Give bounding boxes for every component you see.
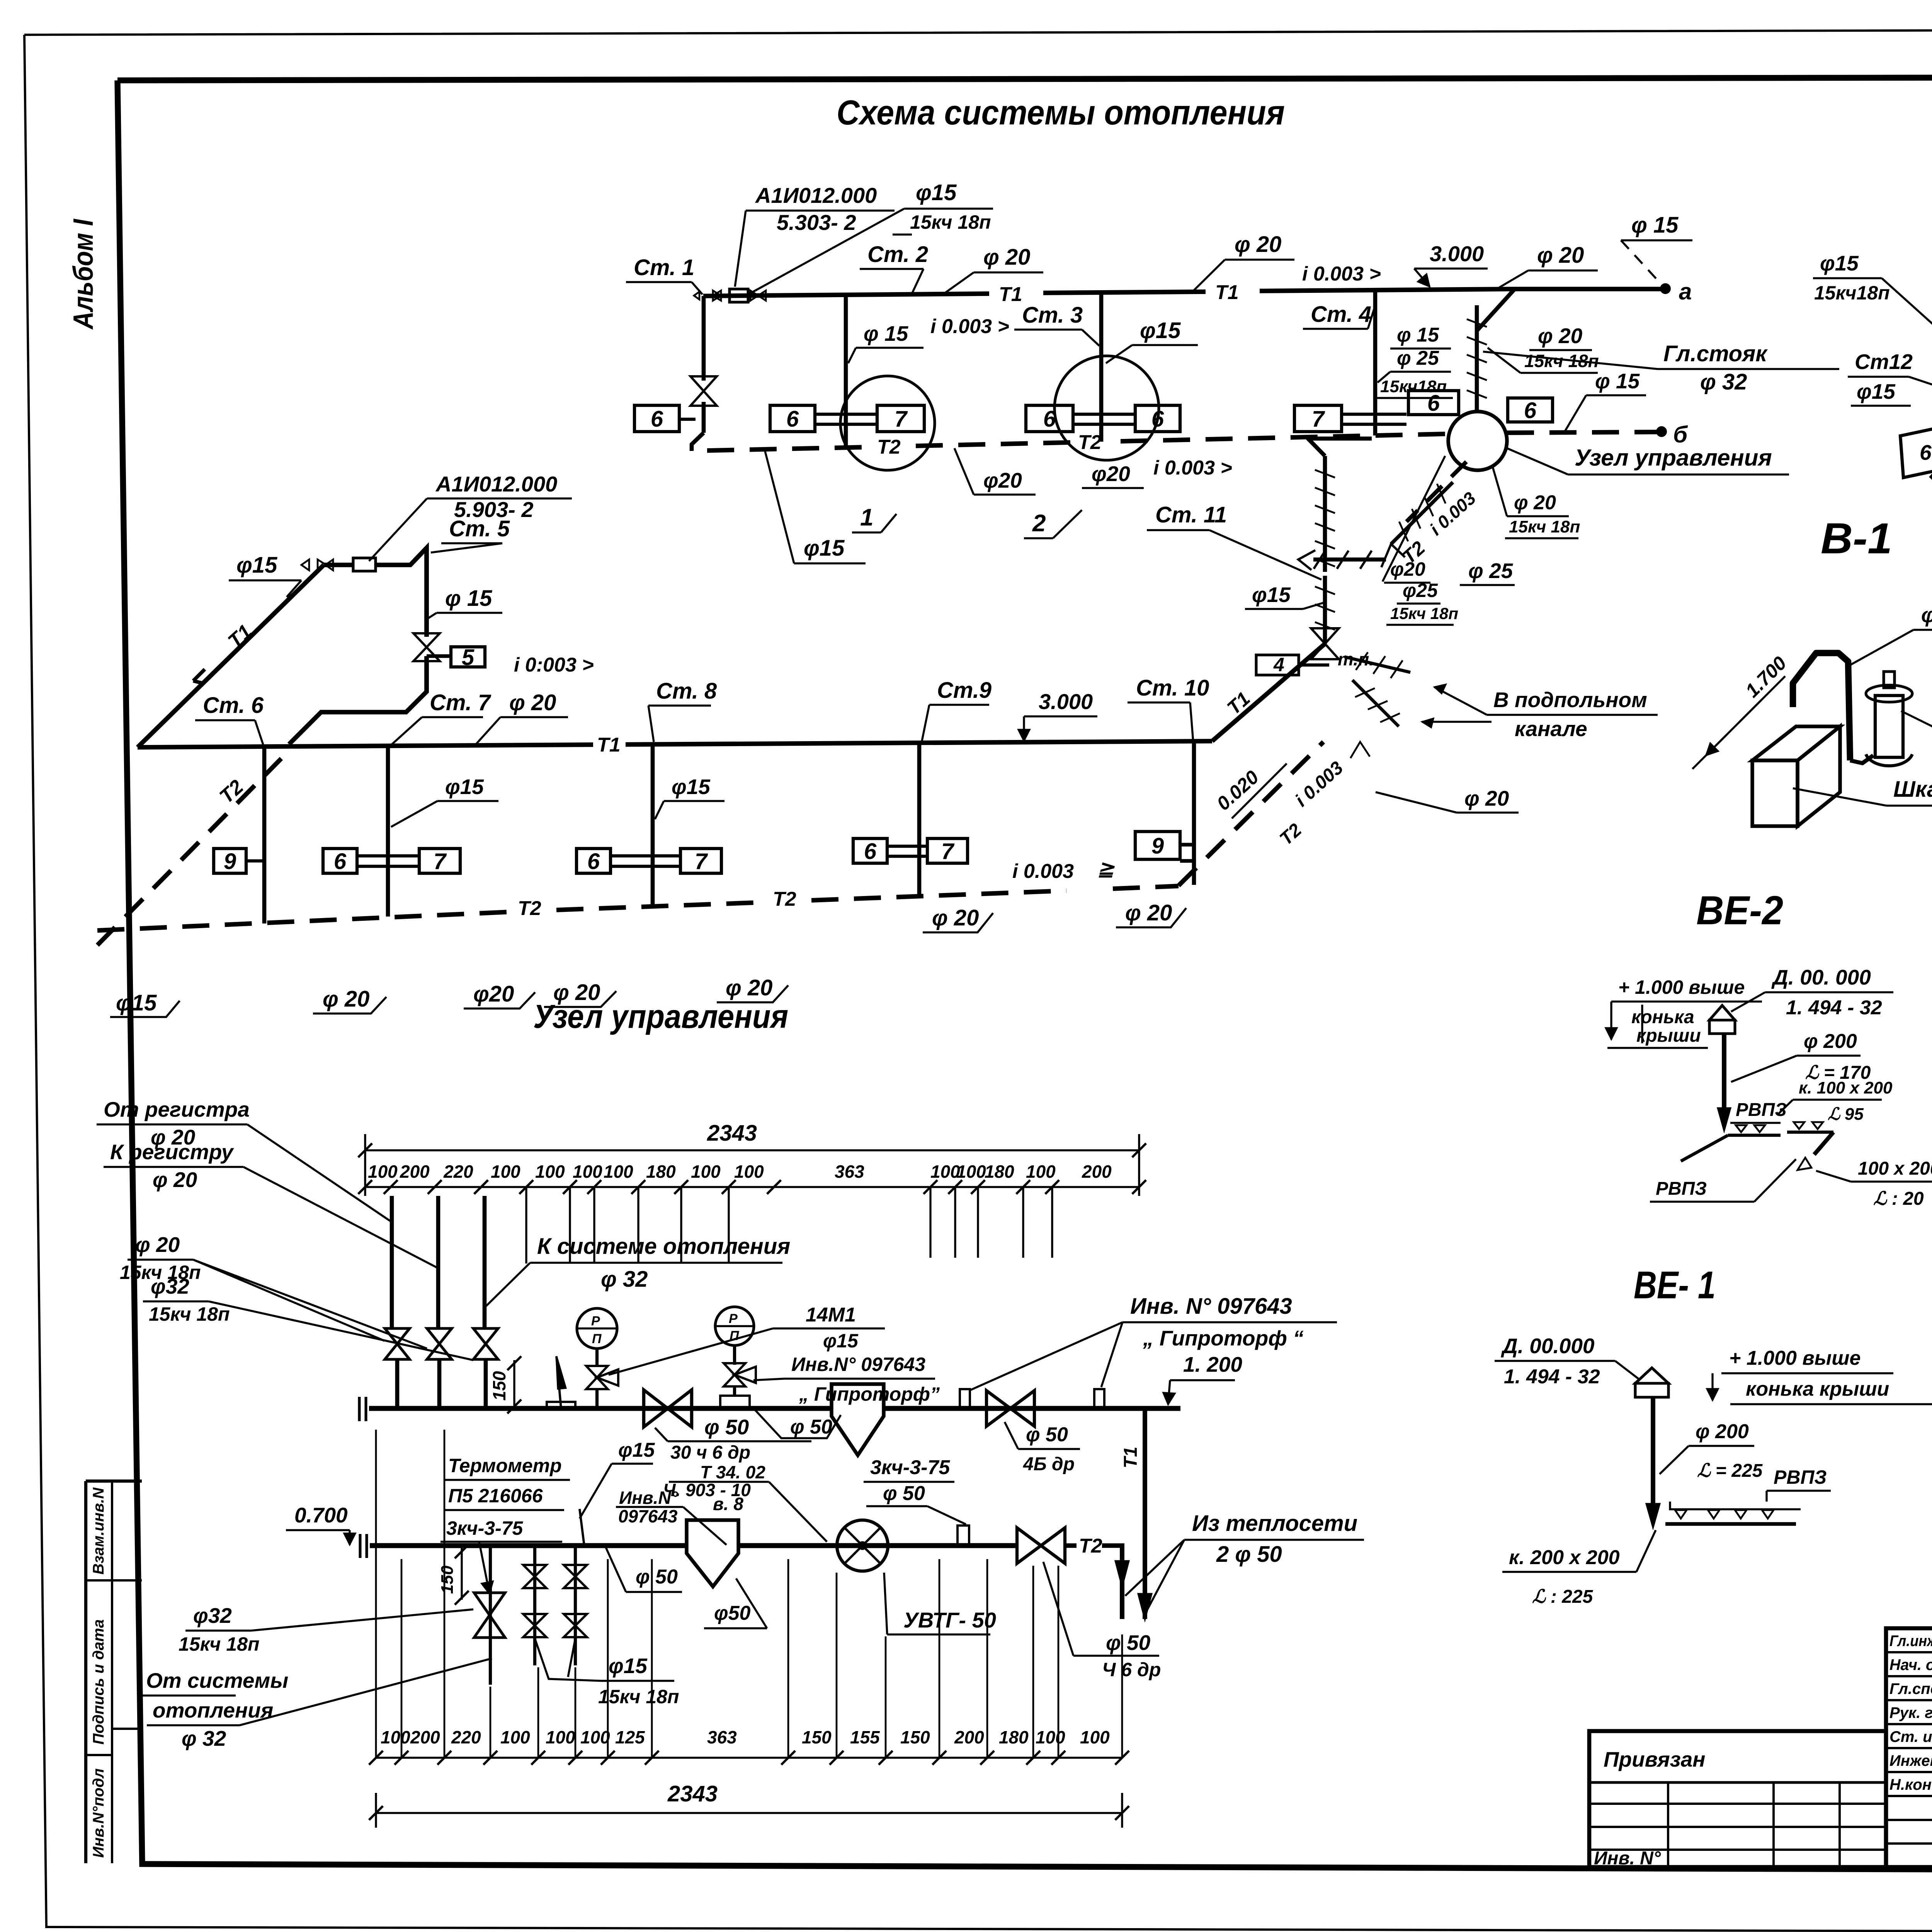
- svg-text:Т1: Т1: [1121, 1447, 1141, 1468]
- svg-text:Т1: Т1: [1215, 281, 1239, 304]
- VE1 grille: [1665, 1522, 1796, 1526]
- svg-text:φ 50: φ 50: [1026, 1423, 1068, 1446]
- svg-text:Инжен.: Инжен.: [1889, 1752, 1932, 1769]
- svg-text:≧: ≧: [1097, 858, 1115, 880]
- svg-text:канале: канале: [1515, 717, 1587, 741]
- radiator 5: [451, 647, 485, 667]
- svg-text:φ 20: φ 20: [323, 986, 369, 1012]
- valve on riser St.1: [690, 376, 717, 391]
- svg-text:φ15: φ15: [1140, 318, 1181, 343]
- svg-text:РВПЗ: РВПЗ: [1774, 1466, 1827, 1488]
- svg-text:2343: 2343: [707, 1121, 757, 1146]
- svg-text:Узел управления: Узел управления: [533, 998, 788, 1035]
- svg-text:Ч 6 др: Ч 6 др: [1102, 1659, 1161, 1680]
- svg-text:φ 50: φ 50: [790, 1416, 832, 1438]
- svg-text:Т2: Т2: [1079, 1535, 1102, 1557]
- svg-text:100: 100: [1080, 1727, 1110, 1747]
- label f50 flag on pipe: [755, 1410, 841, 1438]
- svg-text:Ст. инж.: Ст. инж.: [1889, 1728, 1932, 1745]
- svg-text:φ 50: φ 50: [1106, 1631, 1151, 1655]
- svg-text:Инв.N° 097643: Инв.N° 097643: [791, 1354, 925, 1375]
- thermometer pocket lower: [580, 1509, 584, 1546]
- radiator connection St.3: [1073, 413, 1135, 416]
- svg-text:φ15: φ15: [823, 1330, 859, 1352]
- svg-text:363: 363: [707, 1727, 737, 1747]
- svg-text:φ 20: φ 20: [983, 245, 1030, 270]
- svg-text:φ50: φ50: [714, 1602, 751, 1624]
- svg-text:φ 20: φ 20: [726, 975, 772, 1000]
- VE1 duct: [1651, 1397, 1655, 1515]
- label T1 on upper run: [995, 285, 1027, 304]
- svg-text:Гл.инж.пр.: Гл.инж.пр.: [1889, 1633, 1932, 1650]
- svg-text:φ15: φ15: [445, 775, 484, 799]
- svg-text:7: 7: [1312, 406, 1325, 432]
- svg-text:9: 9: [1151, 833, 1164, 859]
- horizontal ticked segment at junction: [1313, 558, 1386, 562]
- svg-text:200: 200: [400, 1162, 430, 1182]
- svg-text:200: 200: [410, 1727, 440, 1747]
- svg-text:Д. 00. 000: Д. 00. 000: [1771, 965, 1871, 989]
- svg-text:Т2: Т2: [1078, 431, 1102, 454]
- svg-text:Узел управления: Узел управления: [1575, 445, 1772, 471]
- svg-text:097643: 097643: [618, 1506, 678, 1526]
- svg-text:15кч 18п: 15кч 18п: [1509, 517, 1580, 536]
- svg-text:φ32: φ32: [151, 1274, 189, 1298]
- riser from registers 2: [436, 1196, 440, 1328]
- svg-text:100: 100: [734, 1162, 764, 1182]
- svg-text:2343: 2343: [667, 1781, 718, 1806]
- svg-text:Из теплосети: Из теплосети: [1192, 1511, 1357, 1536]
- svg-text:100: 100: [546, 1727, 575, 1747]
- valve reg1: [385, 1328, 410, 1344]
- radiator 7 at St.7: [419, 849, 460, 873]
- svg-text:В-1: В-1: [1821, 514, 1892, 563]
- uzel lower pipe T2: [370, 1543, 687, 1548]
- svg-text:φ25: φ25: [1403, 580, 1438, 601]
- riser St.7: [386, 746, 390, 917]
- svg-text:крыши: крыши: [1636, 1026, 1701, 1046]
- wire T1 end to point a: [1515, 287, 1662, 291]
- svg-text:100: 100: [491, 1162, 520, 1182]
- svg-text:15кч 18п: 15кч 18п: [1524, 351, 1599, 371]
- svg-text:Инв. N°: Инв. N°: [1594, 1848, 1661, 1869]
- riser to heating system: [483, 1196, 487, 1328]
- label T2 lower run: [514, 899, 546, 918]
- svg-text:6: 6: [864, 839, 877, 864]
- valve lower pipe: [1017, 1528, 1041, 1563]
- VE2 duct: [1722, 1034, 1726, 1119]
- svg-text:Гл.стояк: Гл.стояк: [1663, 341, 1768, 366]
- svg-text:Нач. отд.: Нач. отд.: [1889, 1656, 1932, 1673]
- riser St.6: [262, 747, 267, 923]
- radiator connection St.8: [611, 854, 680, 857]
- svg-text:φ 50: φ 50: [636, 1566, 678, 1588]
- svg-text:100: 100: [573, 1162, 602, 1182]
- svg-text:100: 100: [368, 1162, 398, 1182]
- riser St.8: [651, 744, 655, 908]
- svg-text:φ 32: φ 32: [601, 1267, 648, 1292]
- svg-text:Ст. 5: Ст. 5: [449, 516, 510, 541]
- VE2 grille 1: [1728, 1134, 1781, 1137]
- riser St.4: [1373, 290, 1378, 435]
- svg-text:220: 220: [451, 1727, 481, 1747]
- svg-text:6: 6: [587, 849, 600, 874]
- svg-text:φ 15: φ 15: [1397, 324, 1439, 346]
- svg-text:i 0.003 >: i 0.003 >: [930, 315, 1009, 338]
- svg-text:180: 180: [999, 1727, 1029, 1747]
- VE2 duct left diagonal: [1681, 1135, 1728, 1161]
- radiator 7 at St.9: [927, 838, 968, 863]
- box 4: [1256, 655, 1299, 675]
- radiator 6b at St.3: [1135, 405, 1180, 432]
- svg-text:6: 6: [334, 849, 347, 874]
- radiator connection St.9: [887, 845, 927, 848]
- svg-text:Термометр: Термометр: [448, 1455, 562, 1476]
- St.5 branch top: [324, 563, 353, 567]
- svg-text:100 х 200: 100 х 200: [1858, 1158, 1932, 1179]
- T1 diagonal hatched upper part: [1323, 576, 1327, 644]
- label 150 dim lower: [461, 1548, 463, 1600]
- T2 diagonal upper hatched: [1391, 482, 1453, 544]
- gauge 1 3-way valve: [586, 1366, 608, 1378]
- svg-text:7: 7: [895, 406, 908, 432]
- riser St.9: [917, 743, 922, 897]
- thermometer pocket upper: [556, 1356, 561, 1408]
- radiator 6 right of node: [1508, 398, 1553, 422]
- svg-text:200: 200: [954, 1727, 984, 1747]
- svg-text:30 ч 6 др: 30 ч 6 др: [670, 1442, 750, 1463]
- label T1 lower: [593, 736, 626, 755]
- svg-text:180: 180: [646, 1162, 676, 1182]
- svg-text:+ 1.000 выше: + 1.000 выше: [1729, 1347, 1861, 1369]
- svg-text:15кч18п: 15кч18п: [1814, 282, 1890, 304]
- uzel top dim line segments: [365, 1186, 1139, 1188]
- svg-text:Ст. 8: Ст. 8: [656, 679, 717, 704]
- radiator connection St.4: [1342, 413, 1406, 416]
- svg-text:φ15: φ15: [116, 990, 157, 1015]
- riser St.10: [1192, 741, 1196, 885]
- svg-text:φ 200: φ 200: [1804, 1030, 1857, 1053]
- svg-text:φ 20: φ 20: [1125, 900, 1172, 925]
- svg-text:к. 100 х 200: к. 100 х 200: [1799, 1078, 1893, 1097]
- svg-text:φ160: φ160: [1921, 603, 1932, 627]
- svg-text:Схема системы отопления: Схема системы отопления: [837, 94, 1285, 132]
- svg-text:2: 2: [1032, 510, 1046, 537]
- St.5 device box: [353, 558, 376, 571]
- pipe T1 lower run: [138, 741, 1212, 747]
- radiator 6 at St.7: [323, 849, 357, 873]
- svg-text:П5 216066: П5 216066: [448, 1485, 543, 1507]
- svg-text:в. 8: в. 8: [713, 1494, 743, 1514]
- main riser Gl.stoyak hatched: [1475, 305, 1479, 410]
- svg-text:Д. 00.000: Д. 00.000: [1501, 1334, 1595, 1358]
- pipe T2 lower run dashed: [97, 912, 510, 930]
- radiator 9 at St.6: [214, 849, 246, 873]
- valve on T1 diagonal: [1212, 644, 1325, 741]
- svg-text:φ15: φ15: [236, 553, 277, 578]
- svg-text:ℒ : 225: ℒ : 225: [1532, 1587, 1594, 1607]
- svg-text:5.303- 2: 5.303- 2: [777, 210, 856, 235]
- radiator 6 at St.2: [770, 405, 815, 432]
- svg-text:к. 200 х 200: к. 200 х 200: [1509, 1546, 1620, 1569]
- cyclone cylinder ZIL: [1875, 696, 1903, 757]
- radiator 7 at St.4: [1294, 405, 1342, 432]
- label T2 inline: [1065, 1543, 1077, 1548]
- sensor stub 2 upper: [1094, 1389, 1104, 1408]
- svg-text:15кч 18п: 15кч 18п: [149, 1303, 230, 1325]
- big valve upper pipe: [644, 1390, 668, 1427]
- svg-text:100: 100: [500, 1727, 530, 1747]
- svg-text:отопления: отопления: [153, 1698, 273, 1722]
- svg-text:φ 32: φ 32: [1700, 369, 1747, 395]
- svg-text:3кч-3-75: 3кч-3-75: [446, 1517, 524, 1539]
- svg-text:φ 20: φ 20: [135, 1233, 180, 1257]
- svg-text:Привязан: Привязан: [1604, 1747, 1706, 1771]
- title block signature table: [1886, 1628, 1932, 1867]
- svg-text:363: 363: [835, 1162, 864, 1182]
- radiator 6 at St.8: [577, 849, 611, 873]
- svg-text:15кч 18п: 15кч 18п: [179, 1633, 260, 1655]
- svg-text:φ 25: φ 25: [1397, 347, 1439, 369]
- radiator 6 left of main riser: [1408, 391, 1459, 415]
- svg-text:3.000: 3.000: [1430, 241, 1484, 266]
- svg-text:i 0.003 >: i 0.003 >: [1153, 457, 1232, 479]
- svg-text:Взам.инв.N: Взам.инв.N: [90, 1487, 107, 1575]
- svg-text:б: б: [1673, 422, 1688, 447]
- arrowhead on T1 diagonal: [193, 669, 205, 681]
- svg-text:φ 20: φ 20: [932, 905, 979, 930]
- radiator 7 at St.2: [877, 405, 924, 432]
- svg-text:От системы: От системы: [146, 1668, 288, 1692]
- svg-text:i 0:003 >: i 0:003 >: [514, 654, 594, 676]
- svg-text:„ Гипроторф “: „ Гипроторф “: [1143, 1326, 1304, 1350]
- svg-text:Шкаф обеспыливания: Шкаф обеспыливания: [1893, 777, 1932, 802]
- svg-text:φ 15: φ 15: [864, 321, 909, 345]
- svg-text:Т2: Т2: [518, 897, 541, 920]
- wire T2 dashed to point b: [1507, 432, 1658, 433]
- svg-text:100: 100: [604, 1162, 633, 1182]
- svg-text:150: 150: [489, 1371, 509, 1401]
- valve stem 2 lower: [533, 1546, 536, 1665]
- St.5 loop: [376, 548, 427, 637]
- svg-text:2 φ 50: 2 φ 50: [1216, 1542, 1282, 1567]
- UVTG-50 tap circle: [837, 1520, 888, 1571]
- svg-text:φ 25: φ 25: [1468, 559, 1514, 583]
- svg-text:Альбом I: Альбом I: [68, 218, 99, 330]
- svg-text:φ 20: φ 20: [1464, 786, 1509, 810]
- uzel top dim line 2343: [365, 1149, 1139, 1151]
- gauge 2 flange: [720, 1396, 750, 1407]
- svg-text:„ Гипроторф”: „ Гипроторф”: [799, 1383, 940, 1405]
- svg-text:φ20: φ20: [983, 468, 1022, 492]
- svg-text:150: 150: [802, 1727, 832, 1747]
- svg-text:φ15: φ15: [618, 1439, 655, 1461]
- pipe T2 corner down: [1102, 1546, 1122, 1619]
- svg-text:180: 180: [985, 1162, 1014, 1182]
- svg-text:φ 15: φ 15: [1595, 369, 1640, 393]
- device A1I012 at St.1: [730, 289, 748, 302]
- svg-text:φ 20: φ 20: [1537, 243, 1584, 268]
- svg-text:100: 100: [956, 1162, 986, 1182]
- svg-text:6: 6: [1524, 398, 1537, 423]
- svg-text:К системе отопления: К системе отопления: [537, 1234, 790, 1259]
- svg-text:100: 100: [535, 1162, 565, 1182]
- riser St.11 hatched: [1323, 456, 1327, 572]
- radiator 6 at St.9: [853, 838, 887, 863]
- valve St.5: [413, 633, 440, 647]
- svg-text:150: 150: [900, 1727, 930, 1747]
- svg-text:т.п.: т.п.: [1338, 649, 1374, 669]
- svg-text:a: a: [1679, 279, 1692, 304]
- svg-text:φ 20: φ 20: [153, 1168, 197, 1192]
- svg-text:6: 6: [1427, 391, 1440, 416]
- tp hatched branch: [1345, 657, 1410, 672]
- pressure gauge 1: [577, 1308, 617, 1349]
- radiator 9 at St.10: [1135, 832, 1180, 859]
- svg-text:Рук. гр.: Рук. гр.: [1889, 1704, 1932, 1721]
- svg-text:+ 1.000 выше: + 1.000 выше: [1618, 976, 1745, 998]
- svg-text:ВЕ- 1: ВЕ- 1: [1634, 1264, 1716, 1307]
- svg-text:φ15: φ15: [672, 775, 711, 799]
- valve 2 upper pipe: [986, 1391, 1010, 1426]
- svg-text:7: 7: [434, 849, 447, 874]
- svg-text:5: 5: [462, 645, 474, 670]
- sensor stub 1 upper: [960, 1389, 970, 1408]
- VE1 bracket: [1670, 1502, 1801, 1509]
- valve reg2: [427, 1328, 452, 1344]
- svg-text:125: 125: [615, 1727, 645, 1747]
- svg-text:Ст12: Ст12: [1855, 350, 1913, 374]
- VE1 roof vent: [1635, 1383, 1668, 1397]
- V-1 zigzag bottom: [1930, 423, 1932, 478]
- svg-text:100: 100: [930, 1162, 960, 1182]
- label T2 on upper run: [873, 438, 906, 457]
- uzel upravleniya node circle: [1448, 412, 1507, 470]
- uzel dim drop lines: [525, 1187, 527, 1264]
- valve reg3: [473, 1328, 498, 1344]
- valve stem 1 lower: [489, 1546, 492, 1685]
- svg-text:Н.контр: Н.контр: [1889, 1776, 1932, 1793]
- svg-text:15кч 18п: 15кч 18п: [598, 1686, 679, 1708]
- svg-text:φ 20: φ 20: [1538, 324, 1583, 348]
- svg-text:Подпись и дата: Подпись и дата: [90, 1619, 107, 1745]
- svg-text:Ст. 11: Ст. 11: [1155, 502, 1227, 527]
- svg-text:155: 155: [850, 1727, 880, 1747]
- svg-text:φ 200: φ 200: [1696, 1420, 1749, 1443]
- node b: [1657, 427, 1666, 436]
- svg-text:100: 100: [1026, 1162, 1056, 1182]
- left stamp strip: [86, 1480, 142, 1483]
- svg-text:φ15: φ15: [609, 1654, 648, 1678]
- svg-text:Инв. N° 097643: Инв. N° 097643: [1130, 1294, 1292, 1319]
- pressure gauge 2: [715, 1307, 754, 1345]
- svg-text:ℒ 95: ℒ 95: [1828, 1105, 1864, 1124]
- svg-text:100: 100: [381, 1727, 410, 1747]
- svg-text:ℒ = 225: ℒ = 225: [1697, 1461, 1763, 1481]
- svg-text:φ 20: φ 20: [509, 690, 556, 715]
- pipe T1 upper run: [703, 294, 989, 296]
- svg-text:4Б др: 4Б др: [1023, 1454, 1075, 1475]
- pipe T1 lower diagonal: [138, 565, 324, 747]
- svg-text:Т1: Т1: [999, 283, 1022, 306]
- VE2 roof vent: [1709, 1020, 1735, 1034]
- svg-text:ВЕ-2: ВЕ-2: [1696, 888, 1783, 933]
- radiator 6a at St.3: [1026, 405, 1073, 432]
- V-1 box 6 parallelogram: [1900, 426, 1932, 478]
- svg-text:Ст. 10: Ст. 10: [1136, 675, 1209, 701]
- T2 diagonal dashed from node: [1406, 462, 1466, 522]
- svg-text:Ст.9: Ст.9: [937, 678, 992, 703]
- svg-text:конька крыши: конька крыши: [1746, 1378, 1889, 1400]
- radiator 7 at St.8: [680, 849, 721, 873]
- uzel bottom dim verticals: [375, 1430, 377, 1758]
- pipe T2 upper run dashed: [707, 447, 869, 451]
- svg-text:6: 6: [786, 406, 799, 432]
- svg-text:15кч 18п: 15кч 18п: [1390, 604, 1458, 622]
- svg-text:Т1: Т1: [597, 734, 621, 756]
- svg-text:РВПЗ: РВПЗ: [1736, 1100, 1787, 1120]
- svg-text:φ 15: φ 15: [1631, 213, 1679, 238]
- riser from registers 1: [390, 1196, 394, 1328]
- wire T1 to main riser: [1477, 289, 1515, 331]
- svg-text:6: 6: [1920, 440, 1932, 464]
- svg-text:φ 20: φ 20: [1514, 492, 1556, 514]
- svg-text:От регистра: От регистра: [104, 1097, 250, 1121]
- svg-text:Ст. 6: Ст. 6: [203, 693, 264, 718]
- svg-text:7: 7: [941, 839, 955, 864]
- riser St.1: [702, 296, 706, 381]
- node a: [1661, 284, 1670, 293]
- svg-text:Т2: Т2: [877, 436, 901, 458]
- svg-text:i 0.003: i 0.003: [1012, 860, 1074, 883]
- dashed T2 lower diagonal: [1179, 742, 1323, 886]
- svg-text:100: 100: [1036, 1727, 1065, 1747]
- uzel bottom 2343 line: [376, 1812, 1122, 1814]
- svg-text:4: 4: [1273, 654, 1284, 675]
- svg-text:А1И012.000: А1И012.000: [435, 472, 557, 496]
- svg-text:φ 32: φ 32: [182, 1726, 226, 1750]
- radiator connection St.7: [357, 854, 419, 857]
- VE2 grille 2: [1787, 1131, 1833, 1134]
- uzel upper pipe T1: [369, 1406, 832, 1411]
- svg-text:Ст. 3: Ст. 3: [1022, 303, 1083, 328]
- svg-text:φ32: φ32: [193, 1604, 232, 1628]
- svg-text:Ст. 1: Ст. 1: [634, 255, 694, 280]
- wire St.11 top corner: [1308, 439, 1372, 456]
- callout circle 2: [1054, 356, 1159, 460]
- label 150 dim: [513, 1360, 515, 1408]
- svg-text:φ15: φ15: [916, 180, 957, 205]
- svg-text:Инв.N°подл: Инв.N°подл: [90, 1768, 107, 1858]
- dust cabinet box: [1752, 760, 1798, 826]
- svg-text:φ15: φ15: [1820, 251, 1859, 275]
- svg-text:φ 50: φ 50: [883, 1482, 925, 1505]
- svg-text:1: 1: [860, 504, 873, 531]
- svg-text:1. 200: 1. 200: [1183, 1352, 1242, 1376]
- svg-text:φ 20: φ 20: [1235, 232, 1281, 257]
- gauge 2 3-way valve: [724, 1363, 745, 1375]
- svg-text:Р: Р: [729, 1311, 738, 1326]
- svg-text:φ15: φ15: [1857, 379, 1896, 403]
- svg-text:200: 200: [1082, 1162, 1112, 1182]
- svg-text:П: П: [592, 1332, 602, 1346]
- svg-text:Ст. 7: Ст. 7: [430, 690, 492, 715]
- svg-text:φ15: φ15: [804, 536, 845, 561]
- cabinet to cylinder hose: [1850, 755, 1873, 763]
- title block privyazan table: [1589, 1731, 1886, 1867]
- radiator 6 at St.1: [634, 405, 679, 432]
- uzel pipe right corner down T1: [1143, 1408, 1147, 1619]
